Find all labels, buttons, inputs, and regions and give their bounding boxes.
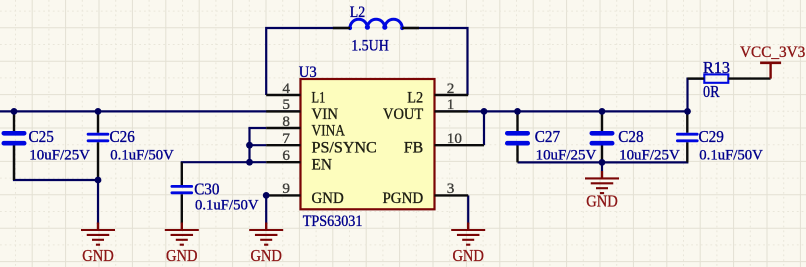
svg-text:5: 5 <box>282 96 290 113</box>
R13 right lead <box>728 77 770 79</box>
U3 pin 2 L2 <box>435 94 469 96</box>
U3 pin 10 FB <box>435 144 485 146</box>
wire pin 8 corner <box>248 127 266 129</box>
svg-text:6: 6 <box>282 147 290 164</box>
svg-text:GND: GND <box>452 246 484 265</box>
svg-text:L1: L1 <box>312 89 326 106</box>
svg-text:2: 2 <box>447 80 455 97</box>
svg-text:PS/SYNC: PS/SYNC <box>312 140 377 157</box>
capacitor C30 <box>181 162 183 185</box>
svg-text:3: 3 <box>447 180 455 197</box>
wire inductor loop left <box>266 28 350 95</box>
wire C25 bottom to C26 bottom <box>14 144 98 180</box>
wire pin 9 down to ground <box>265 195 267 224</box>
resistor R13 <box>704 74 728 82</box>
svg-text:VINA: VINA <box>312 122 346 139</box>
wire pin 3 down to ground <box>467 195 469 224</box>
junction pin6/EN <box>246 159 253 166</box>
svg-text:VCC_3V3: VCC_3V3 <box>740 44 806 61</box>
svg-text:L2: L2 <box>350 3 365 21</box>
svg-text:10uF/25V: 10uF/25V <box>536 146 597 163</box>
R13 left lead <box>688 77 705 79</box>
svg-text:R13: R13 <box>703 58 730 77</box>
svg-text:TPS63031: TPS63031 <box>303 212 363 230</box>
power port VCC_3V3 <box>769 63 771 79</box>
U3 pin 6 EN <box>266 161 300 163</box>
svg-text:4: 4 <box>282 80 290 97</box>
junction pin7 <box>246 142 253 149</box>
U3 pin 3 PGND <box>435 194 469 196</box>
junction C28 bottom/GND <box>599 159 606 166</box>
svg-text:GND: GND <box>312 190 344 207</box>
wire pins 8-7-6 vertical <box>248 128 250 162</box>
svg-text:1: 1 <box>447 96 455 113</box>
svg-text:C28: C28 <box>618 127 643 146</box>
svg-text:1.5UH: 1.5UH <box>351 36 389 54</box>
U3 pin 7 PS/SYNC <box>266 144 300 146</box>
inductor L2 <box>350 19 402 28</box>
svg-text:VOUT: VOUT <box>383 106 424 123</box>
capacitor C27 <box>516 111 518 131</box>
U3 pin 8 VINA <box>266 127 300 129</box>
ground <box>467 223 469 231</box>
svg-text:PGND: PGND <box>383 190 424 207</box>
ground <box>265 223 267 231</box>
L2 pin stubs <box>333 27 350 29</box>
wire stub above C28 ground <box>601 162 603 171</box>
wire EN net C30 to pin 6 <box>181 161 267 163</box>
ground <box>97 223 99 231</box>
ground <box>601 171 603 179</box>
svg-text:10uF/25V: 10uF/25V <box>619 146 680 163</box>
capacitor C28 <box>601 111 603 131</box>
svg-text:EN: EN <box>312 157 332 174</box>
svg-text:C27: C27 <box>535 127 560 146</box>
wire main VIN rail left <box>0 110 301 112</box>
svg-text:GND: GND <box>166 246 198 265</box>
junction pin9/GND <box>263 192 270 199</box>
junction C25/VIN <box>11 108 18 115</box>
junction C25-C26 bottom <box>95 177 102 184</box>
svg-text:9: 9 <box>282 180 290 197</box>
svg-text:U3: U3 <box>299 63 317 81</box>
wire pin 7 to vertical <box>250 144 267 146</box>
IC U3 TPS63031 body <box>301 79 435 209</box>
svg-text:GND: GND <box>586 192 618 211</box>
wire inductor loop right <box>402 28 468 95</box>
junction FB/VOUT <box>481 108 488 115</box>
capacitor C29 <box>686 111 688 132</box>
svg-text:0.1uF/50V: 0.1uF/50V <box>110 146 174 163</box>
junction C29/R13/VOUT <box>684 108 691 115</box>
svg-text:10uF/25V: 10uF/25V <box>29 146 90 163</box>
U3 pin 4 L1 <box>266 94 300 96</box>
ground <box>181 223 183 231</box>
U3 pin 9 GND <box>266 194 300 196</box>
svg-text:0.1uF/50V: 0.1uF/50V <box>195 196 259 213</box>
junction C27/VOUT <box>514 108 521 115</box>
svg-text:C26: C26 <box>110 127 135 146</box>
svg-text:0.1uF/50V: 0.1uF/50V <box>699 146 763 163</box>
svg-text:8: 8 <box>282 113 290 130</box>
U3 pin 5 VIN <box>266 110 300 112</box>
svg-text:0R: 0R <box>703 82 720 101</box>
svg-text:VIN: VIN <box>312 106 339 123</box>
U3 pin 1 VOUT <box>435 110 469 112</box>
svg-text:GND: GND <box>82 246 114 265</box>
svg-text:L2: L2 <box>407 89 423 106</box>
wire bottom right rail <box>518 161 689 163</box>
wire R13 branch vertical <box>688 79 705 112</box>
capacitor C25 <box>13 111 15 131</box>
wire FB to VOUT rail <box>483 111 485 145</box>
junction C28/VOUT <box>599 108 606 115</box>
junction C26/VIN <box>95 108 102 115</box>
capacitor C26 <box>97 111 99 132</box>
wire C26 down to ground <box>97 180 99 224</box>
svg-text:10: 10 <box>447 130 463 147</box>
svg-text:FB: FB <box>404 140 423 157</box>
wire VOUT rail right <box>435 110 689 112</box>
svg-text:C25: C25 <box>29 127 54 146</box>
svg-text:7: 7 <box>282 130 290 147</box>
svg-text:GND: GND <box>250 246 282 265</box>
svg-text:C29: C29 <box>699 127 724 146</box>
